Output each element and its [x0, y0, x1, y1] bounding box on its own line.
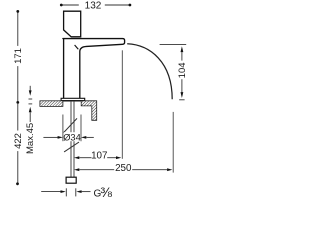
dimension G 3/8 [41, 191, 60, 193]
spout joint tick [75, 45, 79, 49]
pipe break slash 2 [64, 142, 79, 152]
dimension diameter 34 [43, 136, 58, 138]
svg-text:107: 107 [91, 151, 107, 162]
dimension 171 left [17, 13, 19, 102]
svg-text:132: 132 [85, 0, 102, 11]
water stream arc [127, 44, 172, 100]
dimension 107 [74, 156, 79, 159]
hole edge extension lines [62, 115, 64, 142]
countertop hatch left [40, 101, 63, 107]
dimension 422 left lower [17, 104, 19, 183]
extension line spout tip [121, 50, 123, 159]
dimension 104 right [160, 44, 187, 46]
svg-text:250: 250 [115, 163, 132, 174]
faucet handle [64, 11, 81, 37]
threaded end cap G3/8 [66, 177, 76, 183]
svg-text:Max.45: Max.45 [25, 123, 36, 154]
faucet body and spout outline [63, 39, 125, 99]
dimension Max.45 [29, 86, 31, 91]
supply pipe [70, 101, 72, 177]
svg-text:171: 171 [13, 48, 24, 64]
extension line water end [172, 112, 174, 173]
countertop hatch right L-block [81, 101, 97, 121]
base plate [61, 98, 85, 100]
svg-text:422: 422 [13, 133, 24, 149]
pipe break slash 1 [64, 118, 77, 132]
svg-text:⅜: ⅜ [100, 184, 112, 200]
dimension 132 top [62, 4, 129, 6]
svg-text:104: 104 [177, 62, 188, 78]
dimension 250 [74, 168, 79, 171]
svg-text:Ø34: Ø34 [63, 132, 81, 142]
